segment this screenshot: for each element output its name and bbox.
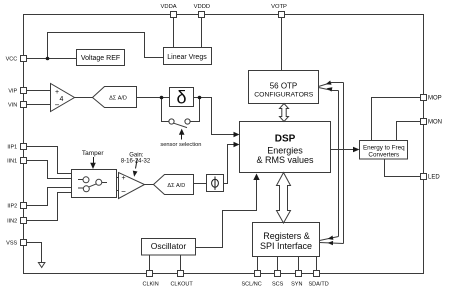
svg-text:VDDD: VDDD: [194, 4, 210, 10]
svg-text:IIP1: IIP1: [7, 145, 17, 151]
svg-text:SCS: SCS: [272, 282, 284, 288]
svg-text:CLKIN: CLKIN: [142, 282, 158, 288]
svg-text:4: 4: [60, 96, 64, 103]
svg-text:VSS: VSS: [6, 241, 17, 247]
svg-text:8-16-24-32: 8-16-24-32: [121, 158, 151, 164]
svg-text:CONFIGURATORS: CONFIGURATORS: [254, 92, 314, 99]
svg-text:Energies: Energies: [267, 146, 303, 156]
svg-text:IIN1: IIN1: [7, 159, 17, 165]
svg-text:MOP: MOP: [428, 96, 442, 102]
svg-text:CLKOUT: CLKOUT: [170, 282, 193, 288]
svg-text:Energy to Freq: Energy to Freq: [363, 144, 405, 151]
svg-text:IIP2: IIP2: [7, 204, 17, 210]
svg-text:−: −: [55, 100, 60, 109]
svg-text:VCC: VCC: [6, 57, 18, 63]
svg-text:SCL/NC: SCL/NC: [242, 282, 262, 288]
svg-text:δ: δ: [176, 88, 186, 108]
svg-text:Converters: Converters: [368, 152, 399, 159]
svg-text:VIP: VIP: [8, 89, 17, 95]
svg-text:VDDA: VDDA: [161, 4, 177, 10]
svg-text:Registers &: Registers &: [263, 231, 310, 241]
svg-text:sensor selection: sensor selection: [160, 142, 201, 148]
svg-text:SYN: SYN: [291, 282, 302, 288]
svg-text:SPI Interface: SPI Interface: [260, 241, 312, 251]
svg-text:LED: LED: [428, 175, 440, 181]
svg-text:MON: MON: [428, 120, 442, 126]
svg-text:Tamper: Tamper: [82, 150, 105, 157]
svg-text:56 OTP: 56 OTP: [270, 82, 298, 91]
svg-text:+: +: [55, 89, 59, 96]
svg-text:IIN2: IIN2: [7, 219, 17, 225]
svg-text:& RMS values: & RMS values: [256, 155, 314, 165]
svg-text:Voltage REF: Voltage REF: [81, 55, 120, 62]
svg-text:VOTP: VOTP: [271, 4, 287, 10]
svg-text:Oscillator: Oscillator: [151, 241, 187, 251]
svg-text:−: −: [121, 187, 126, 196]
svg-text:SDA/TD: SDA/TD: [309, 282, 329, 288]
svg-text:ΔΣ A/D: ΔΣ A/D: [167, 183, 185, 189]
svg-text:Linear Vregs: Linear Vregs: [167, 54, 207, 61]
svg-text:DSP: DSP: [275, 134, 296, 145]
svg-text:VIN: VIN: [8, 103, 17, 109]
svg-text:ΔΣ A/D: ΔΣ A/D: [109, 95, 127, 101]
svg-text:+: +: [121, 175, 125, 182]
